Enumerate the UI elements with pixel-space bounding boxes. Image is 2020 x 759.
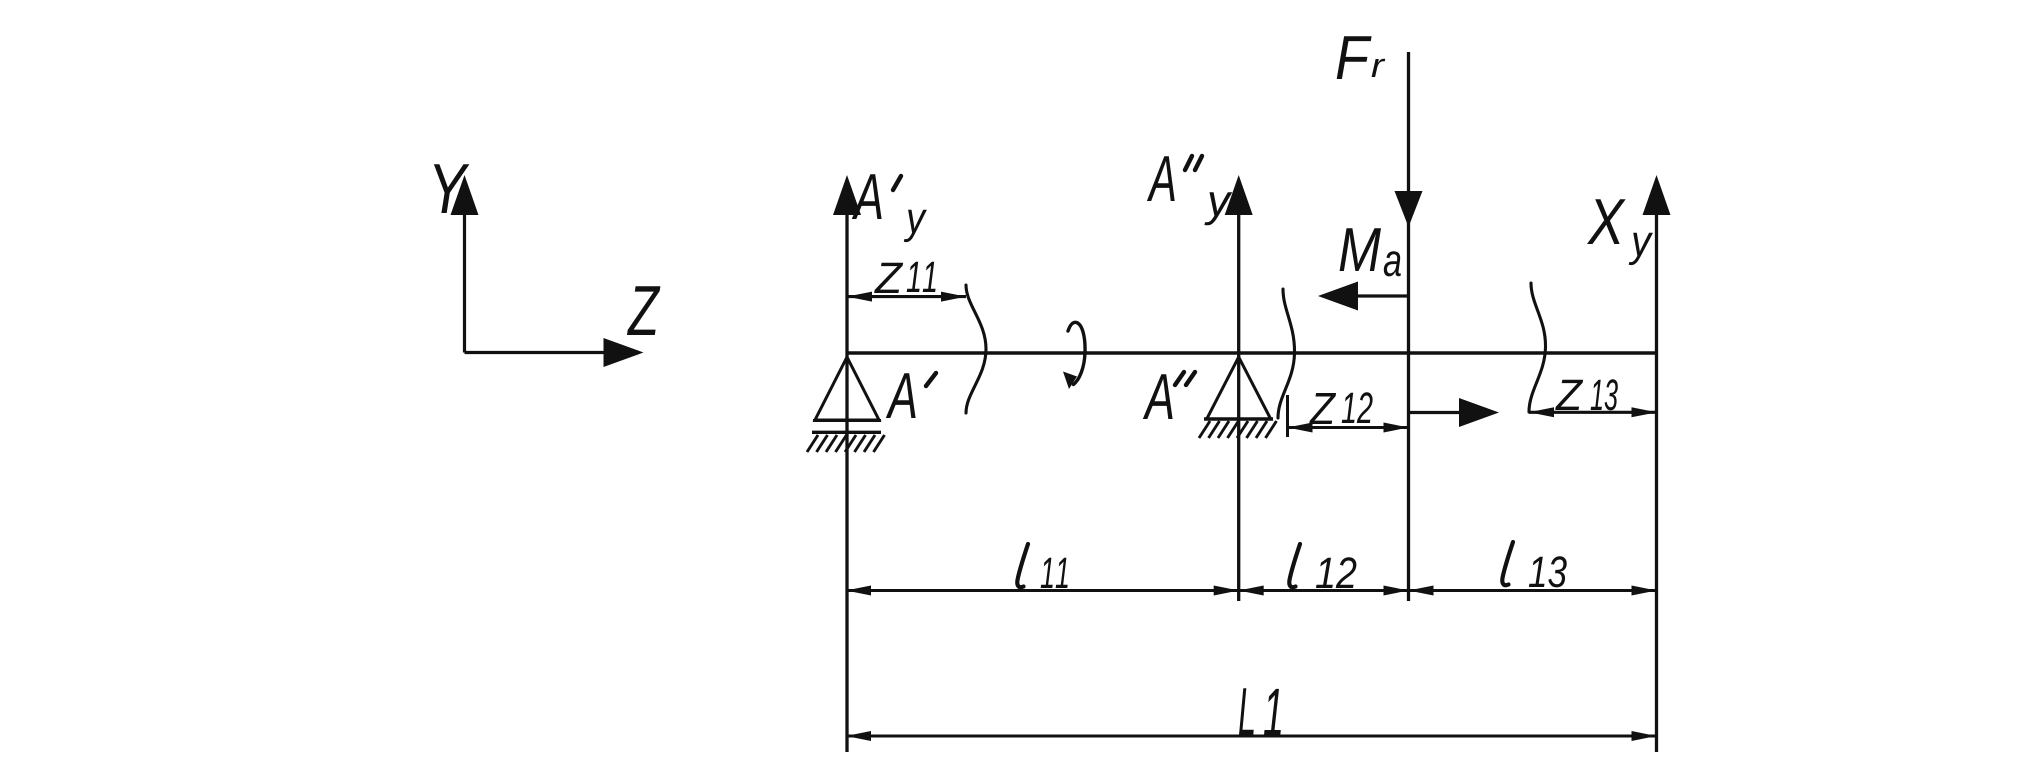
label z12 digits 12 [1342,392,1373,423]
support A'' hatching [1199,421,1277,438]
label l13 digits 13 [1529,556,1567,587]
Y axis label [434,164,470,213]
label L1 digit 1 [1264,689,1281,735]
label A'y prime [893,176,901,190]
dimension L1 right arrowhead [1632,731,1657,741]
dimension l12 line [1239,589,1409,592]
dimension z11 left arrowhead [847,292,872,302]
dimension l12 right arrowhead [1384,586,1409,596]
dimension z12 tick [1286,395,1289,437]
moment Ma left arrowhead [1318,282,1358,311]
support A' base line [813,419,881,422]
force Xy vertical line [1655,213,1658,752]
label l11 digits 11 [1041,558,1068,588]
moment Ma left arrow line [1356,294,1409,297]
dimension z11 line [847,295,966,298]
force Fr vertical line [1407,52,1410,601]
dimension l13 line [1409,589,1657,592]
Z axis line [465,351,609,354]
support A'' base line [1204,417,1273,420]
break curve 3 [1529,283,1546,412]
label A' support letter A [886,373,916,418]
dimension z12 right arrowhead [1384,423,1409,433]
dimension z13 left arrowhead [1529,407,1554,417]
label l12 digits 12 [1316,557,1356,588]
label A'' support double prime [1175,372,1195,385]
label z13 letter Z [1555,380,1583,410]
Z axis label [627,286,660,335]
rotation symbol arc [1068,322,1085,384]
Z axis arrowhead [604,338,644,367]
label L1 letter L [1239,688,1254,735]
rotation symbol arrowhead [1063,372,1077,390]
label A''y letter A [1147,156,1175,201]
dimension l11 line [846,589,1239,592]
label z11 digits 11 [907,262,936,292]
dimension l13 right arrowhead [1632,586,1657,596]
Y axis line [463,212,466,353]
moment couple right arrowhead [1459,398,1499,427]
Y axis arrowhead [451,175,479,215]
dimension z12 left arrowhead [1288,423,1313,433]
label A'' support letter A [1143,374,1173,419]
dimension l12 left arrowhead [1239,586,1264,596]
label Ma letter M [1340,228,1381,271]
dimension z11 right arrowhead [941,292,966,302]
label l12 script ell [1289,544,1300,587]
dimension z12 line [1288,426,1409,429]
label z11 letter Z [874,263,903,293]
reaction A''y vertical line [1237,213,1240,601]
dimension z13 right arrowhead [1632,407,1657,417]
support A'' triangle [1207,357,1271,419]
label z13 digits 13 [1591,379,1618,410]
break curve 2 [1278,289,1295,418]
label Fr subscript r [1372,59,1386,77]
force Xy arrowhead [1643,175,1671,215]
support A' hatching [807,435,885,452]
reaction A'y arrowhead [833,175,861,215]
support A' triangle [815,357,879,420]
dimension l11 right arrowhead [1214,586,1239,596]
label l11 script ell [1017,544,1028,587]
beam [847,351,1657,354]
label l13 script ell [1502,542,1513,585]
dimension l11 left arrowhead [846,586,871,596]
label z12 letter Z [1309,393,1336,424]
label Fr letter F [1337,36,1372,79]
label A'y subscript y [904,210,927,242]
dimension L1 line [846,734,1657,737]
label Ma subscript a [1384,251,1401,276]
label A''y double prime [1185,156,1202,170]
reaction A''y arrowhead [1225,175,1253,215]
label A''y subscript y [1204,192,1232,225]
dimension L1 left arrowhead [846,731,871,741]
reaction A'y vertical line [845,213,848,752]
break curve 1 [966,285,986,413]
support A' ground line [812,431,881,434]
dimension z13 line [1529,411,1657,414]
label Xy letter X [1587,199,1626,244]
moment couple right arrow line [1409,411,1462,414]
force Fr arrowhead [1395,191,1423,227]
label Xy subscript y [1629,233,1653,265]
label A' support prime [926,373,936,386]
label A'y letter A [852,174,882,219]
dimension l13 left arrowhead [1409,586,1434,596]
